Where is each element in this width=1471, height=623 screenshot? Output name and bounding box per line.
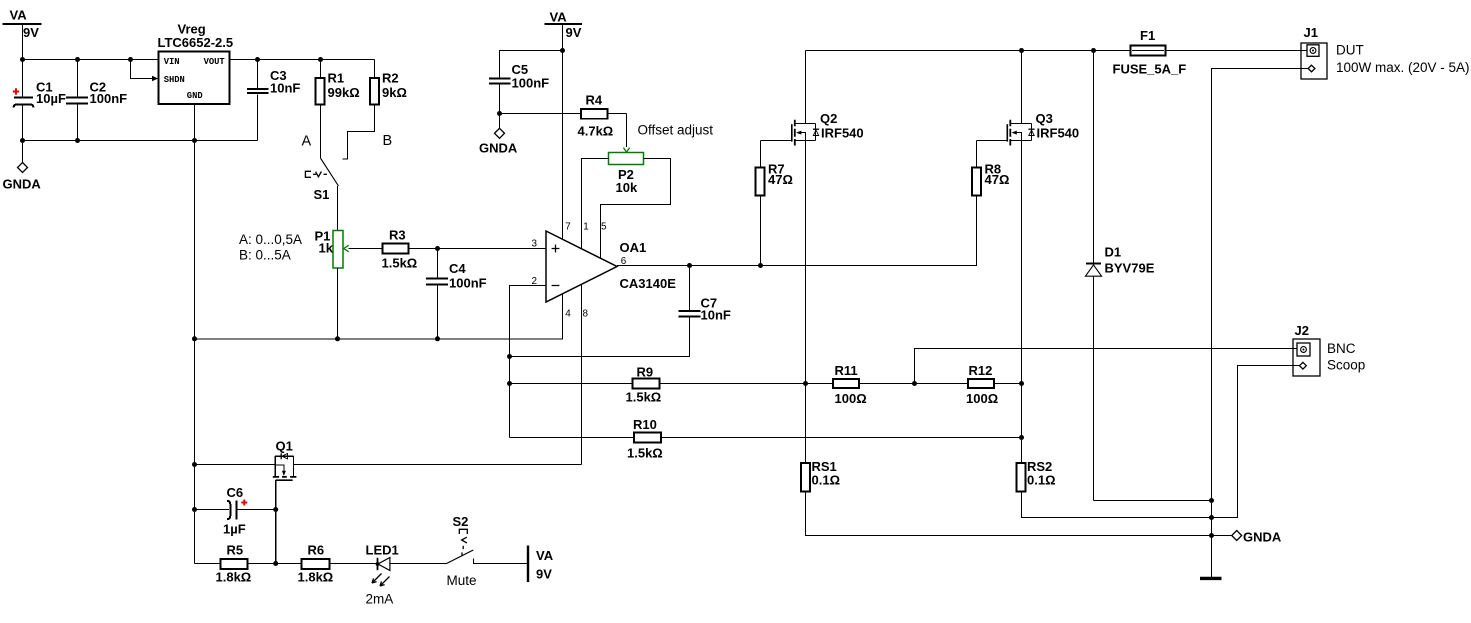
svg-text:100nF: 100nF [449, 275, 487, 290]
svg-text:VIN: VIN [164, 57, 180, 67]
resistor R12 [966, 363, 998, 406]
wire R9 row [510, 383, 1022, 385]
transistor Q3 IRF540 [977, 51, 1080, 464]
svg-text:2mA: 2mA [366, 592, 394, 607]
svg-text:GNDA: GNDA [1243, 530, 1282, 545]
wire S1 to P1 [337, 186, 339, 231]
svg-text:1.5kΩ: 1.5kΩ [382, 255, 418, 270]
potentiometer P2 [609, 148, 644, 196]
wire C6 row [195, 509, 276, 511]
node C4 bottom [435, 336, 440, 341]
wire top rail to VIN [23, 59, 159, 61]
potentiometer P1 [315, 229, 349, 269]
wire P2 left to pin1 [582, 159, 609, 249]
svg-text:Offset adjust: Offset adjust [638, 123, 714, 138]
svg-text:5: 5 [601, 222, 607, 233]
svg-text:A: 0...0,5A: A: 0...0,5A [239, 232, 302, 247]
svg-text:VA: VA [536, 548, 554, 563]
node C7 wire / pin2 [507, 354, 512, 359]
wire bottom rail [23, 140, 258, 142]
node mute rail left [192, 462, 197, 467]
wire P1 bottom [337, 268, 339, 339]
svg-text:C6: C6 [227, 485, 244, 500]
wire analog ground rail / opamp pin4 [195, 294, 563, 339]
svg-text:R11: R11 [835, 363, 858, 378]
svg-text:VA: VA [550, 10, 568, 25]
op-amp OA1 [546, 231, 676, 302]
node P1 bottom [335, 336, 340, 341]
node C1 bottom [20, 138, 25, 143]
svg-text:S2: S2 [453, 514, 469, 529]
resistor R7 [756, 141, 793, 266]
svg-text:0.1Ω: 0.1Ω [1027, 472, 1056, 487]
svg-text:S1: S1 [314, 187, 330, 202]
svg-text:1µF: 1µF [223, 522, 246, 537]
node C2 bottom [75, 138, 80, 143]
svg-text:B: B [383, 133, 393, 149]
node Q1 gate/R5/R6 [273, 561, 278, 566]
svg-text:D1: D1 [1105, 244, 1122, 259]
wire mute rail right to pin8 [294, 464, 582, 466]
capacitor C2 [66, 60, 127, 141]
resistor R5 [216, 543, 252, 585]
wire VOUT rail [230, 59, 375, 61]
resistor R8 [972, 141, 1009, 196]
svg-text:DUT: DUT [1336, 43, 1364, 58]
wire Q1 gate down [275, 480, 277, 563]
svg-text:CA3140E: CA3140E [620, 276, 677, 291]
switch S1 [305, 158, 338, 202]
node Vreg GND / bottom rail [192, 138, 197, 143]
svg-text:100Ω: 100Ω [835, 391, 867, 406]
fuse F1 [1113, 28, 1187, 77]
transistor Q2 IRF540 [761, 51, 864, 464]
wire R5/R6/LED row [195, 563, 447, 565]
wire P2 right to pin5 [601, 159, 671, 259]
resistor R1 [316, 60, 360, 159]
wire pin8 down [581, 284, 583, 464]
svg-text:R12: R12 [969, 363, 993, 378]
node C5 branch [560, 48, 565, 53]
node D1 top [1091, 48, 1096, 53]
svg-text:IRF540: IRF540 [1037, 125, 1080, 140]
wire VA down to rails [22, 24, 24, 141]
svg-text:C4: C4 [449, 261, 466, 276]
svg-text:GNDA: GNDA [479, 140, 518, 155]
ground earth bar [1200, 577, 1222, 580]
svg-text:100nF: 100nF [90, 91, 128, 106]
switch S2 Mute [447, 514, 527, 588]
svg-text:R1: R1 [328, 71, 345, 86]
svg-text:R6: R6 [308, 543, 325, 558]
capacitor C1 [13, 80, 66, 108]
svg-text:100Ω: 100Ω [966, 391, 998, 406]
wire pin2 feedback node [510, 286, 547, 438]
svg-text:9V: 9V [536, 567, 552, 582]
svg-text:A: A [302, 133, 312, 149]
svg-text:Q3: Q3 [1036, 111, 1053, 126]
svg-text:9kΩ: 9kΩ [382, 85, 407, 100]
svg-text:OA1: OA1 [620, 240, 647, 255]
ground GNDA (right) [1232, 530, 1282, 545]
wire RS1 bottom to GNDA [806, 492, 1232, 536]
capacitor C3 [247, 60, 300, 141]
resistor R9 [626, 364, 662, 404]
svg-text:R3: R3 [389, 227, 406, 242]
node GNDA junction [1209, 533, 1214, 538]
svg-text:R4: R4 [586, 92, 603, 107]
wire mute rail left [195, 464, 276, 466]
svg-text:7: 7 [565, 222, 571, 233]
svg-text:99kΩ: 99kΩ [328, 85, 360, 100]
connector J2 [1293, 323, 1365, 376]
node R11/R12 junction [912, 381, 917, 386]
resistor R11 [833, 363, 867, 406]
node D1 bottom junction [1209, 498, 1214, 503]
svg-text:8: 8 [583, 309, 589, 320]
svg-text:VOUT: VOUT [204, 57, 226, 67]
node Q3 drain [1019, 48, 1024, 53]
svg-text:R2: R2 [382, 71, 399, 86]
svg-text:9V: 9V [23, 25, 39, 40]
svg-text:FUSE_5A_F: FUSE_5A_F [1113, 62, 1187, 77]
wire to J2 BNC [915, 349, 1298, 384]
svg-text:4: 4 [565, 309, 571, 320]
svg-text:3: 3 [532, 238, 538, 249]
svg-text:47Ω: 47Ω [985, 172, 1010, 187]
node R3/C4 [435, 246, 440, 251]
svg-text:1.8kΩ: 1.8kΩ [298, 569, 334, 584]
node R1 top [318, 57, 323, 62]
node R12 right [1019, 381, 1024, 386]
resistor R6 [298, 543, 334, 585]
svg-text:100nF: 100nF [512, 75, 550, 90]
svg-text:1k: 1k [319, 240, 334, 255]
svg-text:0.1Ω: 0.1Ω [812, 472, 841, 487]
ground GNDA (middle) [479, 114, 518, 156]
resistor R3 [382, 227, 418, 270]
capacitor C7 [510, 266, 731, 357]
svg-text:B: 0...5A: B: 0...5A [239, 248, 291, 263]
node VA/C1 [20, 57, 25, 62]
svg-text:J2: J2 [1295, 323, 1309, 338]
svg-text:47Ω: 47Ω [768, 172, 793, 187]
svg-text:IRF540: IRF540 [821, 125, 864, 140]
node C2 top [75, 57, 80, 62]
svg-text:R9: R9 [637, 364, 654, 379]
wire J1 pin2 sense down [1212, 69, 1309, 578]
power VA (middle) [545, 10, 583, 41]
svg-text:LED1: LED1 [366, 543, 399, 558]
svg-text:10nF: 10nF [701, 308, 731, 323]
svg-text:GND: GND [187, 91, 203, 101]
SHDN arrowhead [152, 76, 158, 81]
wire RS2 bottom to J2 pin2 [1022, 366, 1300, 518]
svg-text:4.7kΩ: 4.7kΩ [578, 123, 614, 138]
transistor Q1 [273, 438, 297, 480]
svg-text:1.8kΩ: 1.8kΩ [216, 569, 252, 584]
LED LED1 [366, 543, 399, 607]
node SHDN branch [128, 57, 133, 62]
svg-text:R10: R10 [633, 417, 657, 432]
svg-text:Scoop: Scoop [1327, 358, 1365, 373]
wire P1 wiper to opamp [349, 248, 547, 250]
svg-text:10µF: 10µF [36, 91, 66, 106]
svg-text:F1: F1 [1140, 28, 1155, 43]
node R7 bottom [758, 263, 763, 268]
wire drain top rail to J1 [806, 50, 1308, 52]
wire D1 bottom [1094, 500, 1212, 502]
svg-text:9V: 9V [566, 25, 582, 40]
node R9 left [507, 381, 512, 386]
regulator Vreg LTC6652-2.5 [158, 22, 234, 105]
resistor R2 [343, 60, 407, 159]
svg-text:1.5kΩ: 1.5kΩ [626, 389, 662, 404]
svg-text:BYV79E: BYV79E [1105, 260, 1155, 275]
svg-text:100W max. (20V - 5A): 100W max. (20V - 5A) [1336, 60, 1470, 75]
resistor R4 [578, 92, 614, 138]
node R10 right [1019, 435, 1024, 440]
wire SHDN branch [131, 60, 153, 79]
wire opamp output [617, 195, 977, 265]
capacitor C4 [426, 249, 487, 339]
node C6 right [273, 507, 278, 512]
resistor R10 [627, 417, 663, 461]
svg-text:GNDA: GNDA [3, 177, 42, 192]
node C3 top [255, 57, 260, 62]
svg-text:10k: 10k [616, 180, 638, 195]
wire R4 to P2 wiper [500, 114, 627, 148]
connector J1 [1301, 25, 1470, 79]
node C6 left [192, 507, 197, 512]
node RS2/J2 junction [1209, 515, 1214, 520]
svg-text:Q1: Q1 [276, 438, 293, 453]
svg-text:R5: R5 [227, 543, 244, 558]
svg-text:Mute: Mute [447, 573, 477, 588]
svg-text:1.5kΩ: 1.5kΩ [627, 446, 663, 461]
power VA (bottom) [528, 546, 554, 583]
diode D1 BYV79E [1085, 51, 1154, 501]
resistor RS1 [801, 459, 840, 492]
node rail left [192, 336, 197, 341]
svg-text:1: 1 [583, 222, 589, 233]
node R9/R11/Q2 source [803, 381, 808, 386]
power VA (top-left) [3, 8, 42, 41]
wire R10 row [510, 437, 1022, 439]
node C7 top [687, 263, 692, 268]
svg-text:SHDN: SHDN [164, 75, 185, 85]
svg-text:Q2: Q2 [820, 111, 837, 126]
svg-text:J1: J1 [1304, 25, 1318, 40]
resistor RS2 [1017, 459, 1056, 492]
svg-text:VA: VA [10, 8, 28, 23]
svg-text:LTC6652-2.5: LTC6652-2.5 [158, 35, 234, 50]
wire VA to opamp pin7 [562, 24, 564, 240]
capacitor C6 [223, 485, 247, 537]
svg-text:BNC: BNC [1327, 341, 1356, 356]
node C5/R4/GNDA [497, 111, 502, 116]
wire Vreg GND down [194, 104, 196, 564]
capacitor C5 [489, 51, 563, 114]
svg-text:10nF: 10nF [270, 81, 300, 96]
ground GNDA (left) [3, 141, 42, 192]
